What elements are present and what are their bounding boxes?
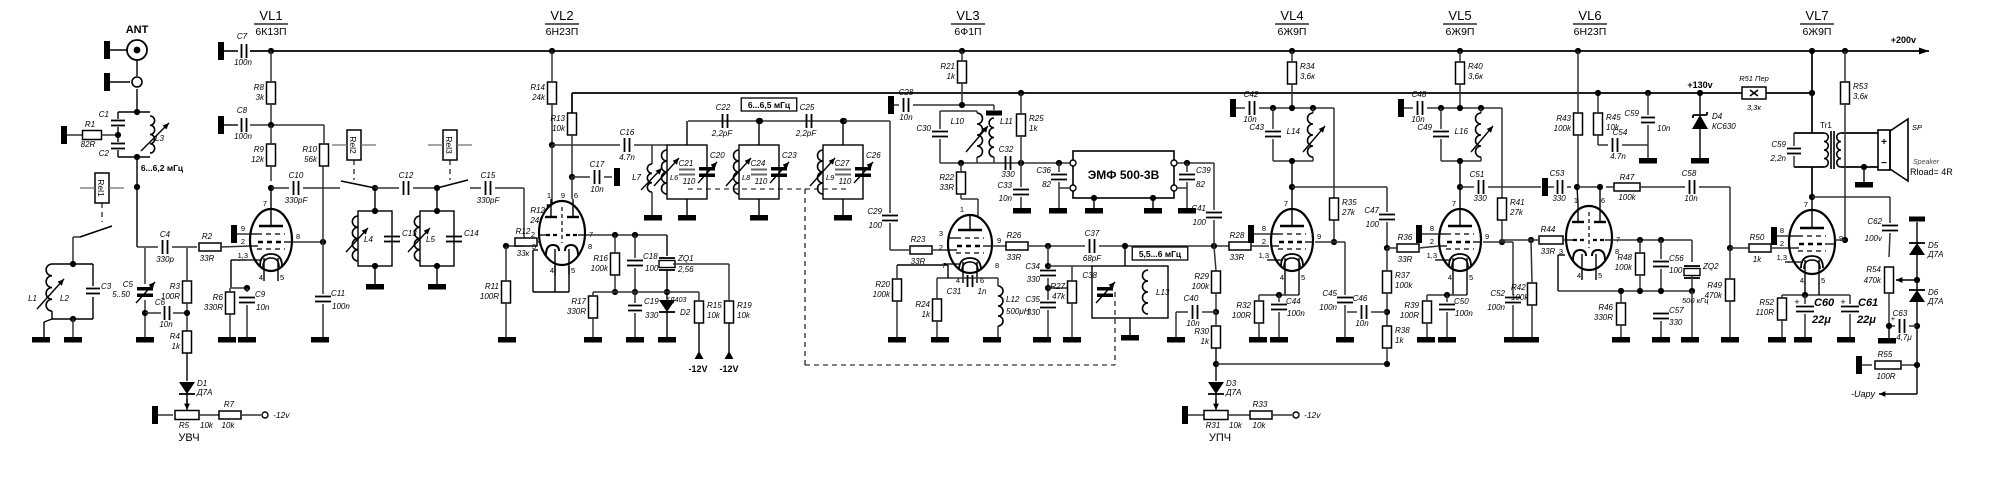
- svg-text:1: 1: [547, 191, 551, 200]
- svg-text:27k: 27k: [1509, 208, 1524, 217]
- svg-text:330: 330: [1669, 318, 1683, 327]
- svg-text:100k: 100k: [1615, 263, 1633, 272]
- svg-text:R48: R48: [1617, 253, 1632, 262]
- svg-text:9: 9: [1485, 232, 1489, 241]
- svg-text:2,2n: 2,2n: [1769, 154, 1786, 163]
- svg-text:10n: 10n: [999, 194, 1013, 203]
- svg-text:VL7: VL7: [1805, 8, 1828, 23]
- svg-text:C37: C37: [1085, 229, 1100, 238]
- svg-text:C26: C26: [866, 151, 881, 160]
- svg-text:C2: C2: [99, 149, 110, 158]
- svg-text:C29: C29: [867, 207, 882, 216]
- svg-text:C9: C9: [255, 290, 266, 299]
- svg-text:330p: 330p: [156, 255, 174, 264]
- svg-text:C44: C44: [1286, 297, 1301, 306]
- svg-text:R20: R20: [875, 280, 890, 289]
- svg-text:100: 100: [1193, 218, 1207, 227]
- svg-text:6...6,2 мГц: 6...6,2 мГц: [141, 163, 184, 173]
- svg-text:330: 330: [1473, 194, 1487, 203]
- svg-text:C50: C50: [1454, 297, 1469, 306]
- svg-text:R3: R3: [170, 282, 181, 291]
- svg-text:C19: C19: [644, 297, 659, 306]
- svg-text:D4: D4: [1712, 112, 1723, 121]
- svg-text:100k: 100k: [1395, 281, 1413, 290]
- svg-text:R7: R7: [224, 400, 235, 409]
- svg-text:C41: C41: [1191, 204, 1206, 213]
- svg-text:C1: C1: [99, 110, 109, 119]
- svg-text:R40: R40: [1468, 62, 1483, 71]
- svg-text:УВЧ: УВЧ: [178, 432, 199, 444]
- svg-text:C16: C16: [620, 128, 635, 137]
- svg-text:УПЧ: УПЧ: [1209, 432, 1231, 444]
- svg-text:5: 5: [571, 266, 575, 275]
- svg-text:+: +: [1881, 137, 1887, 148]
- svg-text:ЭМФ 500-3В: ЭМФ 500-3В: [1088, 168, 1160, 182]
- svg-text:1,3: 1,3: [1777, 253, 1787, 262]
- svg-text:2,56: 2,56: [677, 265, 694, 274]
- svg-text:5: 5: [280, 273, 284, 282]
- svg-text:R17: R17: [571, 297, 586, 306]
- svg-text:C61: C61: [1858, 297, 1878, 309]
- svg-text:C11: C11: [331, 289, 345, 298]
- svg-text:100n: 100n: [234, 132, 252, 141]
- svg-text:L9: L9: [826, 173, 835, 182]
- svg-text:10n: 10n: [1657, 124, 1671, 133]
- svg-text:R35: R35: [1342, 198, 1357, 207]
- svg-text:R28: R28: [1230, 231, 1245, 240]
- svg-text:L3: L3: [155, 134, 164, 143]
- svg-text:4: 4: [1800, 276, 1804, 285]
- svg-text:C33: C33: [997, 181, 1012, 190]
- svg-text:C58: C58: [1682, 169, 1697, 178]
- svg-text:C18: C18: [643, 252, 658, 261]
- svg-text:C15: C15: [481, 171, 496, 180]
- svg-text:R19: R19: [737, 301, 752, 310]
- svg-text:22μ: 22μ: [1811, 314, 1831, 326]
- svg-text:R42: R42: [1511, 283, 1526, 292]
- svg-text:6Н23П: 6Н23П: [546, 26, 579, 38]
- svg-text:VL3: VL3: [956, 8, 979, 23]
- svg-text:100k: 100k: [1511, 293, 1529, 302]
- svg-text:C32: C32: [999, 145, 1014, 154]
- svg-text:6Ж9П: 6Ж9П: [1278, 26, 1307, 38]
- svg-text:5: 5: [1598, 271, 1602, 280]
- svg-text:2: 2: [241, 237, 245, 246]
- svg-text:L12: L12: [1006, 295, 1020, 304]
- svg-text:100: 100: [1669, 266, 1683, 275]
- svg-text:100R: 100R: [480, 292, 499, 301]
- svg-text:5: 5: [1469, 273, 1473, 282]
- svg-text:L1: L1: [28, 294, 37, 303]
- svg-text:9: 9: [561, 191, 565, 200]
- svg-text:470k: 470k: [1705, 291, 1723, 300]
- svg-text:C43: C43: [1249, 123, 1264, 132]
- svg-text:100n: 100n: [332, 302, 350, 311]
- svg-text:33R: 33R: [1541, 247, 1556, 256]
- svg-text:Speaker: Speaker: [1913, 159, 1940, 166]
- svg-text:C28: C28: [899, 88, 914, 97]
- svg-text:C24: C24: [751, 159, 766, 168]
- svg-text:C3: C3: [101, 282, 112, 291]
- svg-text:100n: 100n: [1487, 303, 1505, 312]
- svg-text:6: 6: [1601, 196, 1605, 205]
- svg-text:2: 2: [531, 230, 535, 239]
- svg-text:33R: 33R: [1230, 253, 1245, 262]
- svg-text:L5: L5: [426, 235, 435, 244]
- svg-text:6Ж9П: 6Ж9П: [1803, 26, 1832, 38]
- svg-text:4.7n: 4.7n: [619, 153, 635, 162]
- svg-text:33R: 33R: [200, 254, 215, 263]
- svg-text:24k: 24k: [531, 93, 546, 102]
- svg-text:82: 82: [1042, 180, 1051, 189]
- svg-text:SP: SP: [1912, 123, 1922, 132]
- svg-text:D3: D3: [1226, 379, 1237, 388]
- svg-text:110R: 110R: [1755, 308, 1774, 317]
- svg-text:100k: 100k: [873, 290, 891, 299]
- svg-text:L13: L13: [1156, 288, 1170, 297]
- svg-text:1k: 1k: [947, 72, 956, 81]
- svg-text:330: 330: [1552, 194, 1566, 203]
- svg-text:4,7μ: 4,7μ: [1896, 333, 1912, 342]
- svg-text:330pF: 330pF: [285, 196, 309, 205]
- svg-text:27k: 27k: [1341, 208, 1356, 217]
- svg-text:470k: 470k: [1864, 276, 1882, 285]
- svg-text:-12v: -12v: [273, 410, 290, 420]
- svg-text:100n: 100n: [1455, 309, 1473, 318]
- svg-text:ANT: ANT: [126, 24, 149, 36]
- svg-text:330: 330: [645, 311, 659, 320]
- svg-text:C62: C62: [1867, 217, 1882, 226]
- svg-text:C36: C36: [1036, 166, 1051, 175]
- svg-text:R47: R47: [1620, 173, 1635, 182]
- svg-text:VL2: VL2: [550, 8, 573, 23]
- svg-text:2: 2: [1262, 237, 1266, 246]
- svg-text:C47: C47: [1364, 206, 1379, 215]
- svg-text:100: 100: [1366, 220, 1380, 229]
- svg-text:2,2pF: 2,2pF: [711, 129, 734, 138]
- svg-text:3,6к: 3,6к: [1468, 72, 1484, 81]
- svg-text:Rload= 4R: Rload= 4R: [1910, 167, 1953, 177]
- svg-text:-12V: -12V: [719, 364, 738, 374]
- svg-text:33R: 33R: [1007, 253, 1022, 262]
- svg-text:100k: 100k: [1192, 282, 1210, 291]
- svg-text:100k: 100k: [1618, 193, 1636, 202]
- svg-text:C60: C60: [1814, 297, 1835, 309]
- svg-text:Д7А: Д7А: [196, 388, 212, 397]
- svg-text:L6: L6: [670, 173, 679, 182]
- svg-text:VL5: VL5: [1448, 8, 1471, 23]
- svg-text:6: 6: [574, 191, 578, 200]
- svg-text:R33: R33: [1253, 400, 1268, 409]
- svg-text:R21: R21: [940, 62, 955, 71]
- svg-text:C35: C35: [1025, 295, 1040, 304]
- svg-text:1k: 1k: [922, 310, 931, 319]
- svg-text:D2: D2: [680, 308, 691, 317]
- svg-text:C38: C38: [1082, 271, 1097, 280]
- svg-text:100k: 100k: [1554, 124, 1572, 133]
- svg-text:D6: D6: [1928, 288, 1939, 297]
- svg-text:R24: R24: [915, 300, 930, 309]
- svg-text:9: 9: [997, 236, 1001, 245]
- svg-text:VL4: VL4: [1280, 8, 1303, 23]
- svg-text:12k: 12k: [251, 155, 265, 164]
- svg-text:33к: 33к: [517, 249, 531, 258]
- svg-text:100: 100: [645, 264, 659, 273]
- svg-text:R26: R26: [1007, 231, 1022, 240]
- svg-text:R2: R2: [202, 232, 213, 241]
- svg-text:L4: L4: [364, 235, 373, 244]
- svg-text:C12: C12: [399, 171, 414, 180]
- svg-text:R6: R6: [213, 293, 224, 302]
- svg-text:Д7А: Д7А: [1927, 250, 1943, 259]
- svg-text:R55: R55: [1878, 350, 1893, 359]
- svg-text:C48: C48: [1412, 90, 1427, 99]
- svg-text:10k: 10k: [552, 124, 566, 133]
- svg-text:Д7А: Д7А: [1225, 388, 1241, 397]
- svg-text:56k: 56k: [304, 155, 318, 164]
- svg-text:110: 110: [683, 177, 696, 186]
- svg-text:R54: R54: [1866, 265, 1881, 274]
- svg-text:C53: C53: [1550, 169, 1565, 178]
- svg-text:+: +: [1840, 297, 1845, 307]
- svg-text:5,5...6 мГц: 5,5...6 мГц: [1139, 249, 1182, 259]
- svg-text:2: 2: [939, 243, 943, 252]
- svg-text:100n: 100n: [1319, 303, 1337, 312]
- svg-text:C57: C57: [1669, 306, 1684, 315]
- svg-text:L14: L14: [1287, 127, 1301, 136]
- svg-text:R51 Пер: R51 Пер: [1739, 74, 1769, 83]
- svg-text:10k: 10k: [707, 311, 721, 320]
- svg-text:5: 5: [1821, 276, 1825, 285]
- svg-text:82R: 82R: [81, 140, 96, 149]
- svg-text:10k: 10k: [1253, 421, 1267, 430]
- svg-text:C20: C20: [710, 151, 725, 160]
- svg-text:9: 9: [1317, 232, 1321, 241]
- svg-text:330R: 330R: [1594, 313, 1613, 322]
- svg-text:100R: 100R: [1232, 311, 1251, 320]
- svg-text:C14: C14: [464, 229, 479, 238]
- svg-text:C4: C4: [160, 230, 171, 239]
- svg-text:8: 8: [1780, 226, 1784, 235]
- svg-text:110: 110: [839, 177, 852, 186]
- svg-text:R25: R25: [1029, 114, 1044, 123]
- svg-text:R32: R32: [1236, 301, 1251, 310]
- svg-text:C56: C56: [1669, 254, 1684, 263]
- svg-text:R13: R13: [550, 114, 565, 123]
- svg-text:10n: 10n: [1355, 319, 1369, 328]
- svg-text:C7: C7: [237, 32, 248, 41]
- svg-text:110: 110: [755, 177, 768, 186]
- svg-text:9: 9: [241, 224, 245, 233]
- svg-text:100R: 100R: [1400, 311, 1419, 320]
- svg-text:4: 4: [1577, 271, 1581, 280]
- svg-text:1,3: 1,3: [238, 251, 248, 260]
- svg-text:10n: 10n: [256, 303, 270, 312]
- svg-text:L7: L7: [632, 173, 641, 182]
- svg-text:R53: R53: [1853, 82, 1868, 91]
- svg-text:8: 8: [995, 261, 999, 270]
- svg-text:C25: C25: [800, 103, 815, 112]
- svg-text:4: 4: [259, 273, 263, 282]
- svg-text:10n: 10n: [590, 185, 604, 194]
- svg-text:R31: R31: [1206, 421, 1221, 430]
- svg-text:330: 330: [1027, 308, 1041, 317]
- svg-text:3k: 3k: [256, 93, 265, 102]
- svg-text:6К13П: 6К13П: [255, 26, 286, 38]
- svg-text:1,3: 1,3: [1259, 251, 1269, 260]
- svg-text:C42: C42: [1244, 90, 1259, 99]
- svg-text:-12v: -12v: [1304, 410, 1321, 420]
- svg-text:L8: L8: [742, 173, 751, 182]
- svg-text:Д7А: Д7А: [1927, 297, 1943, 306]
- svg-text:6Ф1П: 6Ф1П: [954, 26, 981, 38]
- svg-text:6Ж9П: 6Ж9П: [1446, 26, 1475, 38]
- svg-text:330: 330: [1001, 170, 1015, 179]
- svg-text:C31: C31: [947, 287, 962, 296]
- svg-text:R41: R41: [1510, 198, 1525, 207]
- svg-text:C54: C54: [1613, 128, 1628, 137]
- svg-text:1,3: 1,3: [1427, 251, 1437, 260]
- svg-text:C52: C52: [1490, 289, 1505, 298]
- svg-text:10k: 10k: [737, 311, 751, 320]
- svg-text:-12V: -12V: [688, 364, 707, 374]
- svg-text:R43: R43: [1556, 114, 1571, 123]
- svg-text:C30: C30: [916, 124, 931, 133]
- svg-text:82: 82: [1196, 180, 1205, 189]
- svg-text:7: 7: [1284, 199, 1288, 208]
- svg-text:D5: D5: [1928, 241, 1939, 250]
- svg-text:R11: R11: [485, 282, 499, 291]
- svg-text:R9: R9: [254, 145, 265, 154]
- svg-text:100R: 100R: [161, 292, 180, 301]
- svg-text:L16: L16: [1455, 127, 1469, 136]
- svg-text:10k: 10k: [1229, 421, 1243, 430]
- svg-text:R38: R38: [1395, 326, 1410, 335]
- svg-text:C59: C59: [1771, 140, 1786, 149]
- svg-text:ZQ2: ZQ2: [1702, 262, 1719, 271]
- svg-text:C22: C22: [716, 103, 731, 112]
- svg-text:Rel1: Rel1: [96, 179, 106, 197]
- svg-text:100v: 100v: [1865, 234, 1883, 243]
- svg-text:R37: R37: [1395, 271, 1410, 280]
- svg-text:100n: 100n: [1287, 309, 1305, 318]
- svg-text:C51: C51: [1470, 170, 1485, 179]
- svg-text:1k: 1k: [172, 342, 181, 351]
- svg-text:R34: R34: [1300, 62, 1315, 71]
- svg-text:4.7n: 4.7n: [1610, 152, 1626, 161]
- svg-text:C27: C27: [835, 159, 850, 168]
- svg-text:1k: 1k: [1029, 124, 1038, 133]
- svg-text:47k: 47k: [1052, 292, 1066, 301]
- svg-text:10n: 10n: [159, 320, 173, 329]
- svg-text:R45: R45: [1606, 113, 1621, 122]
- svg-text:2: 2: [1430, 237, 1434, 246]
- svg-text:КД403: КД403: [666, 297, 687, 304]
- svg-text:6...6,5 мГц: 6...6,5 мГц: [748, 100, 791, 110]
- svg-text:C45: C45: [1322, 289, 1337, 298]
- svg-text:1k: 1k: [1201, 337, 1210, 346]
- svg-text:R10: R10: [302, 145, 317, 154]
- svg-text:R27: R27: [1050, 282, 1065, 291]
- svg-text:Tr1: Tr1: [1820, 121, 1832, 130]
- svg-text:7: 7: [263, 199, 267, 208]
- svg-text:2,2pF: 2,2pF: [795, 129, 818, 138]
- svg-text:L2: L2: [60, 294, 69, 303]
- svg-text:R4: R4: [170, 332, 181, 341]
- svg-text:33R: 33R: [939, 183, 954, 192]
- svg-text:D1: D1: [197, 379, 207, 388]
- svg-text:3,6к: 3,6к: [1853, 92, 1869, 101]
- svg-text:R29: R29: [1194, 272, 1209, 281]
- svg-text:R44: R44: [1541, 225, 1556, 234]
- svg-text:22μ: 22μ: [1856, 314, 1876, 326]
- svg-text:10n: 10n: [899, 113, 913, 122]
- svg-text:−: −: [1881, 158, 1887, 169]
- svg-text:R49: R49: [1707, 281, 1722, 290]
- svg-text:C8: C8: [237, 106, 248, 115]
- svg-text:2: 2: [1780, 239, 1784, 248]
- svg-text:C17: C17: [590, 160, 605, 169]
- svg-text:100R: 100R: [1876, 372, 1895, 381]
- svg-text:5..50: 5..50: [112, 290, 130, 299]
- svg-text:R12: R12: [516, 227, 531, 236]
- svg-text:100n: 100n: [234, 58, 252, 67]
- svg-text:R8: R8: [254, 83, 265, 92]
- svg-text:330pF: 330pF: [477, 196, 501, 205]
- svg-text:4: 4: [1280, 273, 1284, 282]
- svg-text:+200v: +200v: [1891, 35, 1916, 45]
- svg-text:Rel2: Rel2: [348, 136, 358, 154]
- svg-text:10k: 10k: [200, 421, 214, 430]
- svg-text:3,3к: 3,3к: [1747, 103, 1761, 112]
- svg-text:7: 7: [1804, 200, 1808, 209]
- svg-text:33R: 33R: [1398, 255, 1413, 264]
- svg-text:C21: C21: [679, 159, 694, 168]
- svg-text:Rel3: Rel3: [444, 136, 454, 154]
- svg-text:+: +: [1794, 297, 1799, 307]
- svg-text:1n: 1n: [978, 287, 987, 296]
- svg-text:ZQ1: ZQ1: [677, 254, 694, 263]
- svg-text:R30: R30: [1194, 327, 1209, 336]
- svg-text:C34: C34: [1025, 262, 1040, 271]
- svg-text:C10: C10: [289, 171, 304, 180]
- svg-text:R36: R36: [1398, 233, 1413, 242]
- svg-text:1: 1: [960, 205, 964, 214]
- svg-text:1k: 1k: [1753, 255, 1762, 264]
- svg-text:5: 5: [1301, 273, 1305, 282]
- svg-text:R39: R39: [1404, 301, 1419, 310]
- svg-text:L11: L11: [1000, 117, 1013, 126]
- svg-text:C23: C23: [782, 151, 797, 160]
- svg-text:R46: R46: [1598, 303, 1613, 312]
- svg-text:4: 4: [1448, 273, 1452, 282]
- svg-text:C49: C49: [1417, 123, 1432, 132]
- svg-text:R50: R50: [1750, 233, 1765, 242]
- svg-text:R5: R5: [179, 421, 190, 430]
- svg-text:3,6к: 3,6к: [1300, 72, 1316, 81]
- svg-text:-Uapy: -Uapy: [1851, 389, 1876, 399]
- svg-text:10n: 10n: [1684, 194, 1698, 203]
- svg-text:100k: 100k: [591, 264, 609, 273]
- svg-text:68pF: 68pF: [1083, 254, 1102, 263]
- svg-text:3: 3: [939, 229, 943, 238]
- svg-text:7: 7: [1452, 199, 1456, 208]
- svg-text:L10: L10: [951, 117, 965, 126]
- svg-text:КС630: КС630: [1712, 122, 1736, 131]
- svg-text:330R: 330R: [567, 307, 586, 316]
- svg-text:C46: C46: [1353, 294, 1368, 303]
- svg-text:+: +: [1891, 314, 1896, 323]
